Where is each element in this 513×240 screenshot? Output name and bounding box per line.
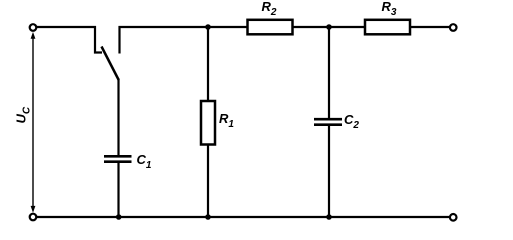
junction: R1 / bottom rail <box>205 214 211 220</box>
wire: C2 to bottom rail <box>328 125 330 217</box>
terminal: output bottom-right <box>450 214 457 221</box>
wire: top rail, R2 to R3 <box>293 26 366 28</box>
svg-text:R3: R3 <box>382 0 397 18</box>
wire: C1 down to bottom rail <box>117 162 119 217</box>
capacitor C2 <box>314 119 342 125</box>
junction: C2 / bottom rail <box>326 214 332 220</box>
wire: R1 to bottom rail <box>207 144 209 217</box>
svg-text:R1: R1 <box>219 111 234 130</box>
wire: R3 to output terminal <box>410 26 450 28</box>
wire: switch pole down to C1 <box>117 79 119 158</box>
switch S1 (changeover, blade to left contact) <box>95 26 120 80</box>
junction: C2 / top rail <box>326 24 332 30</box>
wire: bottom rail <box>37 216 450 218</box>
resistor R1 <box>201 101 215 145</box>
svg-text:R2: R2 <box>262 0 277 18</box>
svg-text:C2: C2 <box>344 112 359 131</box>
svg-text:UC: UC <box>14 106 33 123</box>
capacitor C1 <box>104 156 132 161</box>
resistor R2 <box>248 20 293 35</box>
resistor R3 <box>365 20 410 35</box>
voltage arrow Uc (double-headed) <box>31 32 36 213</box>
svg-text:C1: C1 <box>137 152 152 171</box>
wire: input terminal to switch left contact <box>37 26 96 28</box>
terminal: output top-right <box>450 24 457 31</box>
wire: top rail to C2 <box>328 27 330 120</box>
wire: top rail to R1 <box>207 27 209 102</box>
terminal: input top-left <box>30 24 37 31</box>
junction: C1 / bottom rail <box>116 214 122 220</box>
terminal: input bottom-left <box>30 214 37 221</box>
wire: top rail, switch to R2 <box>119 26 249 28</box>
junction: R1 / top rail <box>205 24 211 30</box>
